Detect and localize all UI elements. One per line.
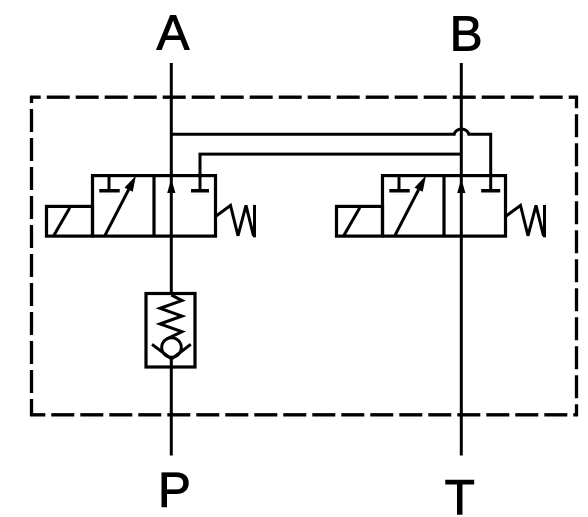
svg-text:T: T bbox=[445, 470, 475, 517]
svg-text:B: B bbox=[450, 6, 483, 61]
svg-text:P: P bbox=[158, 462, 191, 517]
svg-text:A: A bbox=[156, 6, 189, 61]
